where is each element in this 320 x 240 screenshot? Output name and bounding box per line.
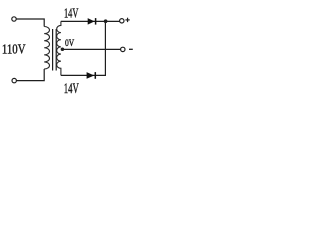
svg-text:14V: 14V — [64, 81, 80, 97]
svg-text:110V: 110V — [2, 42, 26, 57]
svg-text:0V: 0V — [65, 38, 74, 49]
svg-text:14V: 14V — [64, 7, 78, 22]
